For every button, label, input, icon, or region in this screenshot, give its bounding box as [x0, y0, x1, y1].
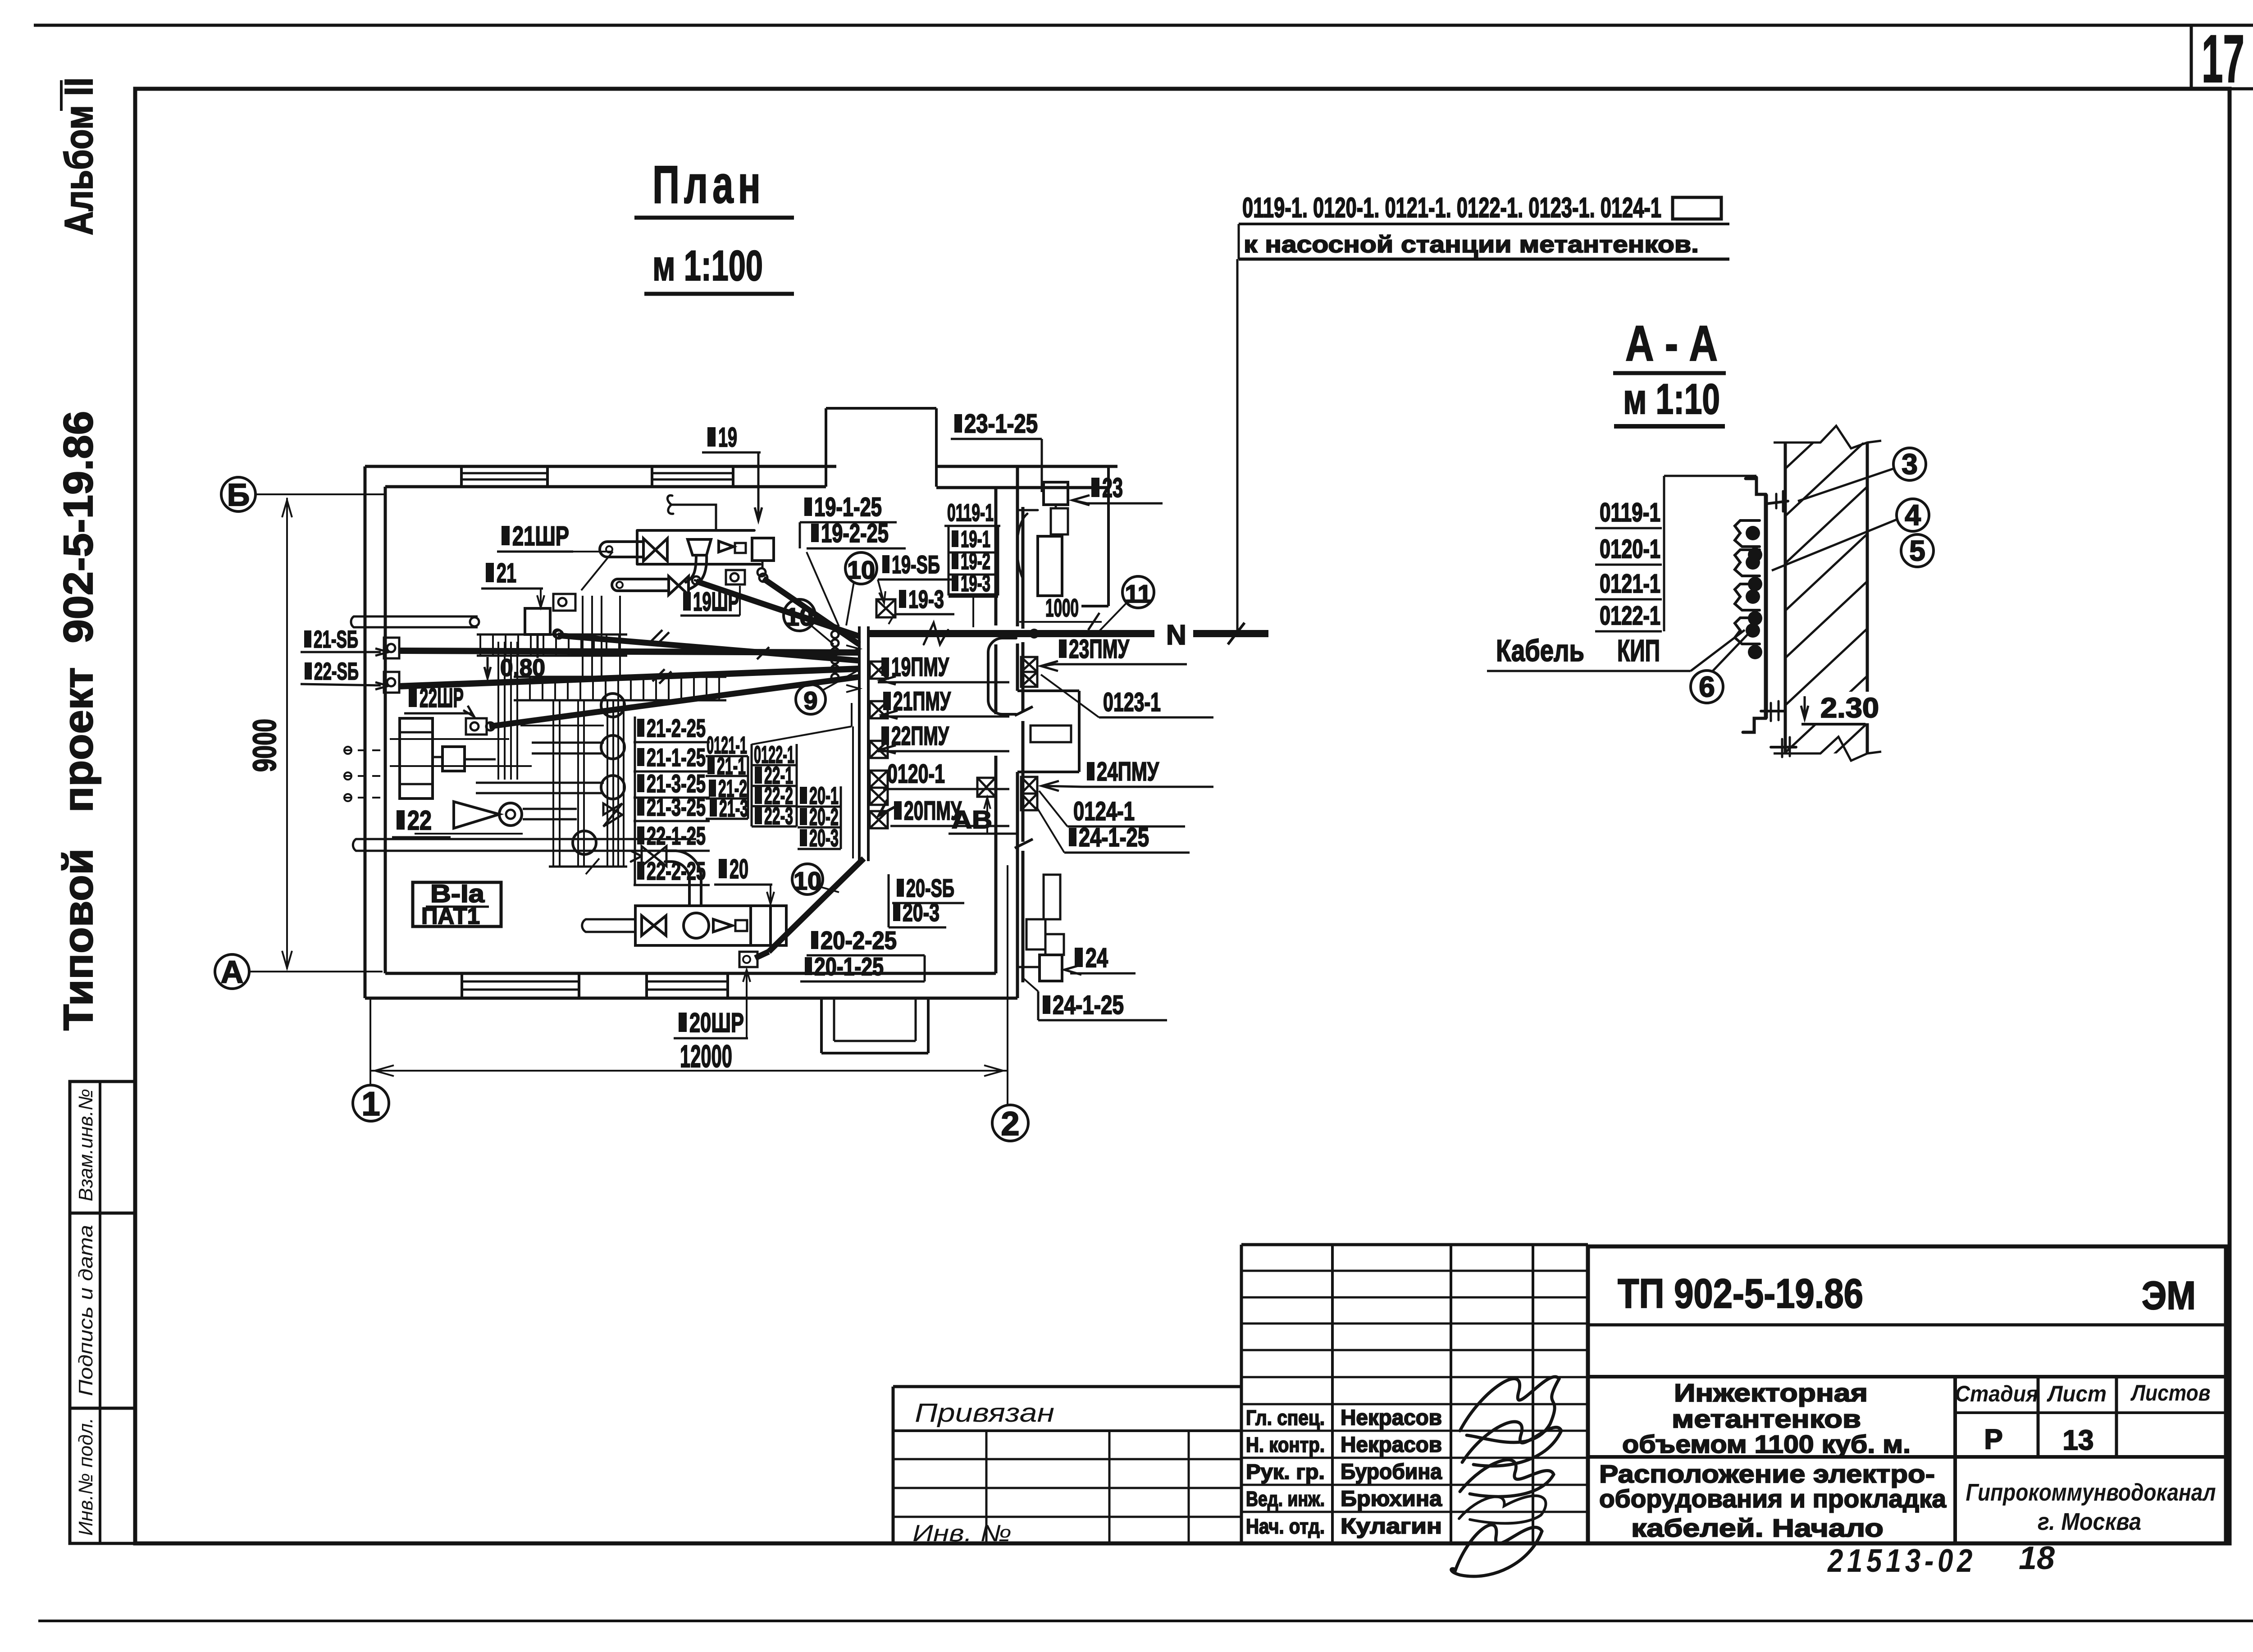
cable down right wall — [1022, 507, 1025, 629]
svg-text:Буробина: Буробина — [1341, 1460, 1442, 1484]
AB box — [977, 778, 995, 797]
injector funnel — [688, 539, 711, 555]
pipe U-loops — [601, 694, 625, 717]
svg-text:22ШР: 22ШР — [420, 683, 464, 713]
level mark 2.30 — [1804, 696, 1806, 719]
svg-text:0121-1: 0121-1 — [1600, 569, 1660, 598]
svg-text:КИП: КИП — [1617, 634, 1660, 668]
label 121PMU — [883, 692, 891, 710]
callout circle 4 — [1897, 499, 1929, 531]
label 119ShR — [683, 592, 691, 611]
svg-text:Инв.№ подл.: Инв.№ подл. — [75, 1418, 97, 1536]
wall niche — [1017, 689, 1079, 692]
svg-text:1000: 1000 — [1045, 593, 1079, 622]
svg-text:0119-1: 0119-1 — [947, 499, 994, 526]
catwalk band — [514, 676, 726, 678]
bottom window 2 — [645, 973, 648, 998]
second pipe with valve — [618, 578, 669, 580]
svg-text:10: 10 — [847, 556, 875, 584]
svg-text:Взам.инв.№: Взам.инв.№ — [75, 1089, 97, 1201]
svg-text:Лист: Лист — [2047, 1381, 2107, 1406]
valve on riser — [603, 803, 622, 826]
cable loops at hub — [831, 631, 839, 638]
PMU boxes right wall — [1021, 657, 1037, 672]
label 123-1-25 — [954, 414, 962, 433]
equipment 123 top — [1044, 482, 1068, 505]
svg-text:20-3: 20-3 — [903, 898, 940, 926]
svg-text:21-1-25: 21-1-25 — [647, 743, 706, 771]
svg-text:Кабель: Кабель — [1496, 634, 1584, 668]
anchor bolt bottom — [1771, 701, 1779, 721]
circle 10 a — [845, 552, 877, 584]
svg-text:21: 21 — [497, 558, 516, 588]
svg-text:Вед. инж.: Вед. инж. — [1246, 1487, 1325, 1511]
building inner wall left — [384, 487, 387, 973]
top border line — [34, 24, 2253, 27]
svg-text:17: 17 — [2202, 21, 2244, 96]
bottom wall outer — [365, 997, 1017, 1000]
svg-text:20-2-25: 20-2-25 — [821, 926, 897, 954]
svg-text:Р: Р — [1984, 1424, 2002, 1455]
svg-text:Б: Б — [227, 477, 250, 512]
svg-text:19ШР: 19ШР — [693, 587, 739, 616]
svg-text:22: 22 — [407, 805, 432, 835]
svg-text:19-1-25: 19-1-25 — [814, 493, 882, 522]
svg-text:объемом 1100 куб. м.: объемом 1100 куб. м. — [1622, 1430, 1911, 1458]
elbow pipe 120 — [665, 862, 689, 906]
label 123 — [1091, 478, 1099, 497]
V-Ia PAT1 box — [413, 882, 501, 926]
label 119 — [707, 427, 716, 447]
top wall outer — [365, 465, 836, 468]
svg-text:Гл. спец.: Гл. спец. — [1246, 1406, 1325, 1429]
svg-text:10: 10 — [794, 867, 821, 895]
SB termination boxes — [384, 638, 399, 658]
label stack 121/122-x-25 — [637, 719, 644, 737]
svg-text:1: 1 — [361, 1085, 380, 1123]
svg-text:кабелей. Начало: кабелей. Начало — [1631, 1514, 1884, 1542]
svg-text:21-2-25: 21-2-25 — [647, 714, 706, 742]
svg-text:Типовой проект 902-5-19.86: Типовой проект 902-5-19.86 — [55, 411, 101, 1031]
left outside pipe stubs — [343, 749, 385, 751]
119ShR box — [726, 570, 745, 584]
svg-text:к насосной станции метантенков: к насосной станции метантенков. — [1244, 232, 1699, 258]
svg-text:метантенков: метантенков — [1672, 1405, 1861, 1433]
svg-text:22-SБ: 22-SБ — [314, 658, 359, 685]
trench band 0.80 — [477, 634, 627, 636]
section A-A wall with hatching — [1784, 443, 1787, 753]
svg-text:А - А: А - А — [1625, 316, 1718, 371]
svg-text:0123-1: 0123-1 — [1103, 688, 1161, 717]
svg-text:20-1-25: 20-1-25 — [814, 952, 884, 981]
svg-text:2: 2 — [1001, 1105, 1019, 1142]
svg-text:24-1-25: 24-1-25 — [1079, 823, 1149, 852]
axis circle A — [215, 954, 249, 989]
bottom border line — [38, 1620, 2253, 1622]
svg-text:20: 20 — [730, 854, 748, 884]
label 120ShR — [679, 1013, 687, 1032]
label 119PMU — [881, 657, 889, 676]
signatures squiggles — [1460, 1377, 1559, 1442]
bottom wall inner — [385, 972, 996, 975]
top porch — [825, 408, 827, 487]
wall break top — [1785, 426, 1867, 448]
svg-text:г. Москва: г. Москва — [2038, 1508, 2141, 1535]
svg-text:0124-1: 0124-1 — [1073, 797, 1135, 826]
svg-text:Привязан: Привязан — [915, 1398, 1054, 1428]
label 124PMU — [1087, 762, 1095, 780]
leader to bottom clamp — [1691, 630, 1745, 671]
labels 119-1-25 / 119-2-25 — [804, 497, 812, 516]
svg-text:24-1-25: 24-1-25 — [1053, 990, 1124, 1020]
pump 122 — [400, 718, 433, 799]
121 device box — [525, 608, 550, 634]
right outside wall corner — [1107, 466, 1110, 606]
dim 9000 — [286, 498, 288, 969]
121ShR box — [553, 594, 575, 611]
svg-text:Некрасов: Некрасов — [1341, 1433, 1442, 1457]
label 122PMU — [881, 726, 889, 745]
svg-text:9: 9 — [803, 686, 817, 715]
elbow down — [686, 555, 707, 589]
building outer wall left — [364, 466, 367, 998]
120ShR box — [739, 952, 757, 967]
svg-text:ПАТ1: ПАТ1 — [421, 903, 480, 929]
svg-text:Гипрокоммунводоканал: Гипрокоммунводоканал — [1966, 1479, 2216, 1506]
injector unit 120 (bottom) — [635, 906, 771, 945]
PMU boxes on tray — [870, 662, 888, 679]
svg-text:Инв. №: Инв. № — [912, 1520, 1012, 1547]
label 121ShR — [502, 526, 510, 545]
right wall inner — [994, 488, 998, 625]
left margin stamp boxes — [70, 1082, 135, 1213]
label 124-1-25 lower — [1043, 995, 1050, 1014]
svg-text:19-3: 19-3 — [961, 570, 990, 597]
svg-text:5: 5 — [1909, 534, 1925, 567]
svg-text:19-SБ: 19-SБ — [892, 550, 940, 579]
privjazan table — [892, 1387, 895, 1543]
svg-text:19-3: 19-3 — [908, 585, 944, 613]
svg-text:ТП 902-5-19.86: ТП 902-5-19.86 — [1618, 1271, 1863, 1317]
svg-text:21-SБ: 21-SБ — [314, 626, 358, 653]
label 121 — [486, 563, 494, 582]
callout circle 6 — [1691, 671, 1723, 703]
cable end loops — [692, 576, 700, 584]
cable to 120ShR — [769, 858, 864, 952]
svg-text:18: 18 — [2019, 1540, 2055, 1576]
svg-text:22-1-25: 22-1-25 — [647, 821, 706, 850]
svg-text:21ШР: 21ШР — [512, 521, 569, 551]
revision table grid — [1240, 1245, 1243, 1543]
svg-text:0119-1: 0119-1 — [1600, 498, 1660, 527]
right wall outer — [1016, 466, 1019, 626]
svg-text:Брюхина: Брюхина — [1341, 1487, 1442, 1511]
svg-text:12000: 12000 — [680, 1039, 732, 1074]
svg-text:оборудования и прокладка: оборудования и прокладка — [1599, 1484, 1947, 1513]
niche window — [1031, 726, 1071, 742]
horizontal pipes — [532, 742, 604, 744]
svg-text:21ПМУ: 21ПМУ — [893, 687, 951, 716]
rounded equipment on wall — [988, 638, 1016, 714]
svg-text:0120-1: 0120-1 — [887, 759, 945, 789]
cable mark rectangle — [1673, 197, 1721, 219]
top window 1 — [460, 466, 463, 487]
svg-text:Подпись и дата: Подпись и дата — [75, 1225, 97, 1396]
label 124-1-25 upper — [1069, 828, 1076, 846]
svg-text:3: 3 — [1902, 448, 1918, 480]
svg-text:м 1:10: м 1:10 — [1623, 375, 1720, 423]
bottom porch — [820, 998, 823, 1053]
label 122ShR — [409, 688, 417, 707]
svg-text:22ПМУ: 22ПМУ — [891, 721, 949, 751]
axis 1 line and circle — [369, 998, 371, 1085]
svg-text:9000: 9000 — [247, 719, 283, 772]
svg-text:План: План — [652, 155, 765, 214]
bottom window 1 — [461, 973, 463, 998]
svg-text:м 1:100: м 1:100 — [652, 242, 763, 290]
page number box — [2190, 25, 2193, 89]
svg-text:Некрасов: Некрасов — [1341, 1406, 1442, 1430]
svg-text:Нач. отд.: Нач. отд. — [1246, 1515, 1325, 1538]
label 120PMU — [894, 801, 902, 820]
top window 2 — [651, 466, 653, 487]
svg-text:0119-1. 0120-1. 0121-1. 0122-1: 0119-1. 0120-1. 0121-1. 0122-1. 0123-1. … — [1242, 192, 1661, 224]
label 119-SB — [882, 555, 889, 573]
label bracket — [1663, 476, 1665, 631]
dim 12000 — [370, 1070, 1008, 1072]
long bottom pipe — [356, 838, 696, 840]
svg-text:2.30: 2.30 — [1820, 693, 1879, 724]
svg-text:11: 11 — [1125, 580, 1151, 608]
extra horizontal pipe lines — [390, 738, 509, 740]
svg-text:13: 13 — [2063, 1425, 2094, 1456]
labels 120-SB / 120-3 — [897, 879, 904, 897]
svg-text:Альбом II: Альбом II — [56, 78, 101, 235]
vent hook top — [667, 495, 716, 530]
svg-text:Инжекторная: Инжекторная — [1674, 1378, 1868, 1407]
anchor bolt top — [1766, 501, 1788, 504]
callout circle 3 — [1893, 448, 1926, 480]
circle 10 b — [784, 599, 815, 631]
svg-text:6: 6 — [1699, 671, 1715, 703]
svg-text:23ПМУ: 23ПМУ — [1069, 634, 1130, 664]
wall break bottom — [1785, 737, 1867, 761]
cable crossing ticks — [650, 630, 662, 642]
svg-text:4: 4 — [1905, 499, 1921, 531]
pipe risers above catwalk — [552, 700, 554, 867]
partition leader from stacks — [752, 726, 852, 744]
title block outer — [1588, 1246, 2226, 1543]
svg-text:20-3: 20-3 — [809, 825, 839, 852]
axis 2 line and circle — [1007, 865, 1008, 1104]
labels 120-2-25 / 120-1-25 — [811, 931, 818, 949]
equipment 124 bottom — [1044, 875, 1060, 919]
label 119-3 — [899, 590, 906, 608]
circle 10 c — [792, 864, 823, 894]
wire leader down to N line — [1236, 259, 1239, 631]
labels 121-SB 122-SB — [304, 630, 311, 648]
svg-text:23-1-25: 23-1-25 — [964, 409, 1038, 438]
main cable N line — [868, 630, 1154, 637]
svg-text:0122-1: 0122-1 — [1600, 601, 1660, 630]
svg-text:А: А — [221, 954, 244, 990]
tray arrows — [846, 645, 859, 653]
label stack 120-1..120-3 — [800, 787, 807, 804]
svg-text:Рук. гр.: Рук. гр. — [1246, 1460, 1325, 1483]
callout box: to pump station of methane tanks — [1239, 223, 1729, 225]
svg-text:Кулагин: Кулагин — [1341, 1515, 1442, 1538]
svg-text:Стадия: Стадия — [1955, 1381, 2039, 1406]
svg-text:19-2-25: 19-2-25 — [821, 519, 889, 548]
break in N line — [924, 623, 948, 644]
svg-text:22-2-25: 22-2-25 — [647, 857, 706, 885]
cable channel (section) — [1764, 494, 1768, 718]
svg-text:23: 23 — [1102, 473, 1123, 503]
axis circle B — [221, 477, 255, 511]
svg-text:АВ: АВ — [952, 805, 992, 834]
svg-text:0120-1: 0120-1 — [1600, 534, 1660, 564]
injector unit 119 (top) — [637, 530, 760, 564]
svg-text:10: 10 — [785, 602, 813, 631]
cable fan from hub — [696, 581, 859, 636]
label 123PMU — [1059, 639, 1067, 658]
svg-text:Листов: Листов — [2130, 1380, 2211, 1406]
label 122 — [397, 810, 405, 830]
circle 9 — [796, 685, 825, 714]
svg-text:N: N — [1166, 620, 1186, 651]
svg-text:24ПМУ: 24ПМУ — [1097, 757, 1159, 786]
cable tray vertical — [858, 626, 861, 861]
svg-text:24: 24 — [1085, 943, 1108, 973]
diagonal cable to injector 119 — [694, 580, 838, 626]
label 120 — [719, 859, 727, 878]
actuator 120 — [751, 906, 786, 945]
mark 0.80 — [487, 657, 489, 678]
svg-text:19: 19 — [718, 422, 737, 452]
label 124 — [1075, 948, 1083, 967]
circle 11 — [1122, 576, 1154, 608]
top wall inner — [385, 485, 826, 488]
cable clamps with cables (section) — [1735, 520, 1760, 547]
svg-text:20ШР: 20ШР — [689, 1008, 744, 1038]
top-left outside pipe — [354, 616, 478, 618]
svg-text:19ПМУ: 19ПМУ — [891, 653, 949, 682]
svg-text:21513-02: 21513-02 — [1827, 1543, 1976, 1579]
actuator 119 — [752, 538, 774, 561]
svg-text:Расположение электро-: Расположение электро- — [1599, 1460, 1935, 1488]
svg-text:Н. контр.: Н. контр. — [1246, 1433, 1325, 1456]
svg-text:ЭМ: ЭМ — [2142, 1273, 2196, 1318]
callout circle 5 — [1901, 534, 1934, 567]
